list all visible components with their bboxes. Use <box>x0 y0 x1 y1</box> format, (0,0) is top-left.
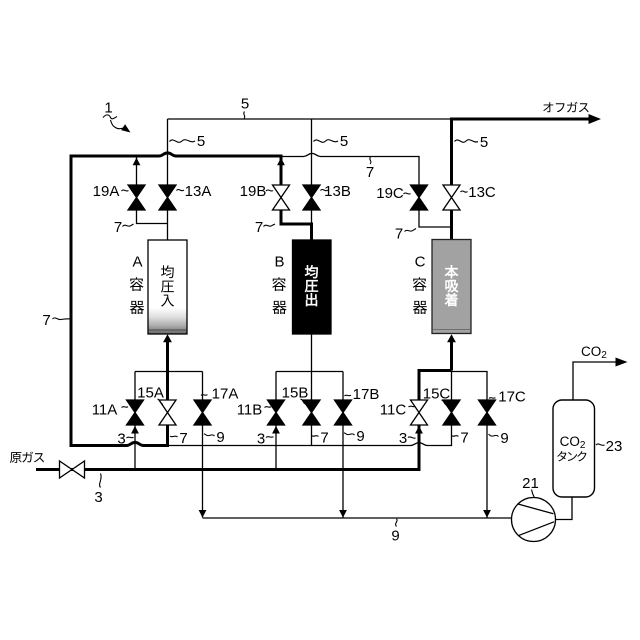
svg-text:11B: 11B <box>237 402 263 419</box>
svg-text:5: 5 <box>480 134 488 151</box>
svg-text:21: 21 <box>522 475 539 492</box>
svg-text:B: B <box>274 254 284 271</box>
pipe: riser line 5 to valve 13B (thin) <box>311 119 313 224</box>
valve 17C <box>479 400 496 425</box>
valve 19C <box>411 185 428 210</box>
pipe: 15B drop to line 7 bottom <box>311 425 313 446</box>
svg-text:7: 7 <box>395 226 403 243</box>
svg-text:13C: 13C <box>468 184 496 201</box>
svg-text:7: 7 <box>42 312 50 329</box>
svg-text:5: 5 <box>197 133 205 150</box>
valve 11C (open) <box>411 400 428 425</box>
svg-text:9: 9 <box>356 428 364 445</box>
manifold A top line <box>135 372 203 401</box>
arrow up into vessel A bottom <box>166 341 169 400</box>
pipe: line 9 to compressor <box>203 517 512 519</box>
svg-text:11C: 11C <box>380 402 407 419</box>
vessel C text 本吸着 <box>445 265 458 278</box>
pipe: branch through valve 19C (thin) <box>419 210 452 227</box>
valve 19B (open) <box>273 185 290 210</box>
valve 13A <box>159 185 176 210</box>
valve 15C <box>443 400 460 425</box>
pipe: compressor to tank <box>556 497 573 520</box>
svg-text:11A: 11A <box>92 402 118 419</box>
valve 13B <box>303 185 320 210</box>
valve 15A (open) <box>159 400 176 425</box>
svg-text:5: 5 <box>241 96 249 113</box>
svg-text:7: 7 <box>460 430 468 447</box>
svg-text:C: C <box>415 254 426 271</box>
arrow up at 19B top <box>277 158 285 166</box>
arrow up at 19A top <box>133 158 141 166</box>
pipe: tank top CO2 outlet with arrow <box>573 362 616 400</box>
svg-text:15C: 15C <box>423 386 451 403</box>
svg-text:13B: 13B <box>324 183 351 200</box>
valve 17A <box>194 400 211 425</box>
svg-text:19B: 19B <box>240 183 267 200</box>
pipe: equalization line 7 upper (thick) with hop over 13A riser <box>71 153 283 446</box>
vessel C (gray) <box>432 240 471 334</box>
svg-text:3: 3 <box>399 430 407 447</box>
label: off-gas text <box>543 102 553 112</box>
svg-text:7: 7 <box>320 430 328 447</box>
valve 19A <box>128 185 145 210</box>
arrow up below 11C <box>415 426 423 434</box>
svg-text:A: A <box>132 254 142 271</box>
svg-text:1: 1 <box>104 100 112 117</box>
pipe: line 7 bottom (thin) with hop over 11C riser <box>168 425 452 446</box>
pipe: 11A drop to raw line <box>134 425 136 470</box>
label: raw gas 原ガス <box>10 452 22 463</box>
svg-text:9: 9 <box>500 430 508 447</box>
svg-text:9: 9 <box>216 429 224 446</box>
valve 11B <box>268 400 285 425</box>
svg-text:7: 7 <box>255 219 263 236</box>
svg-text:17C: 17C <box>498 389 526 406</box>
pipe: thick path through valve 19B into vessel B <box>281 158 312 241</box>
svg-text:19A: 19A <box>93 183 120 200</box>
pipe: raw gas line 3 (thick) up through valve 11C and bypass into vessel C <box>36 371 452 470</box>
pipe: branch through valve 19A (thin) <box>137 158 168 224</box>
valve 11A <box>127 400 144 425</box>
svg-text:5: 5 <box>340 133 348 150</box>
svg-text:19C: 19C <box>376 185 404 202</box>
pipe: off-gas outlet (thick) with arrow <box>452 119 591 185</box>
svg-text:9: 9 <box>391 528 399 545</box>
vessel C bottom cap line <box>433 329 470 331</box>
raw gas inlet valve (open, horizontal) <box>60 461 85 478</box>
svg-text:7: 7 <box>179 430 187 447</box>
svg-text:17A: 17A <box>212 386 239 403</box>
manifold B top line + vessel B lower riser <box>276 334 343 400</box>
manifold C thin part to 17C <box>452 372 488 401</box>
CO2 tank 23 <box>553 400 595 497</box>
svg-text:7: 7 <box>114 219 122 236</box>
pipe: thick riser below 13C into vessel C <box>450 210 453 240</box>
pipe: offgas header line 5 (thin) <box>168 118 452 120</box>
pipe: riser line 5 to valve 13A (thin) <box>167 119 169 240</box>
vessel B (black) <box>293 240 332 334</box>
valve 17B <box>335 400 352 425</box>
svg-text:15A: 15A <box>137 385 164 402</box>
svg-text:3: 3 <box>94 489 102 506</box>
pipe: line 7 upper thin continuation to 19C with hop over 13B riser <box>281 153 419 185</box>
vessel A with gradient fill <box>148 240 187 334</box>
pipe: 11B drop to raw line <box>275 425 277 470</box>
svg-text:17B: 17B <box>353 386 380 403</box>
svg-text:7: 7 <box>366 164 374 181</box>
arrow up into vessel C bottom <box>450 341 453 371</box>
svg-text:23: 23 <box>606 438 623 455</box>
valve 13C (open) <box>443 185 460 210</box>
compressor 21 <box>512 498 556 542</box>
valve 15B <box>303 400 320 425</box>
svg-text:13A: 13A <box>185 183 212 200</box>
pipe: 17A/17B/17C drops to line 9 with down arrows <box>203 425 488 518</box>
svg-text:3: 3 <box>257 431 265 448</box>
vessel A text 均圧入 <box>161 265 174 278</box>
vessel A bottom cap line <box>149 329 186 331</box>
svg-text:3: 3 <box>117 431 125 448</box>
svg-text:15B: 15B <box>282 385 309 402</box>
vessel B text 均圧出 <box>305 265 318 278</box>
